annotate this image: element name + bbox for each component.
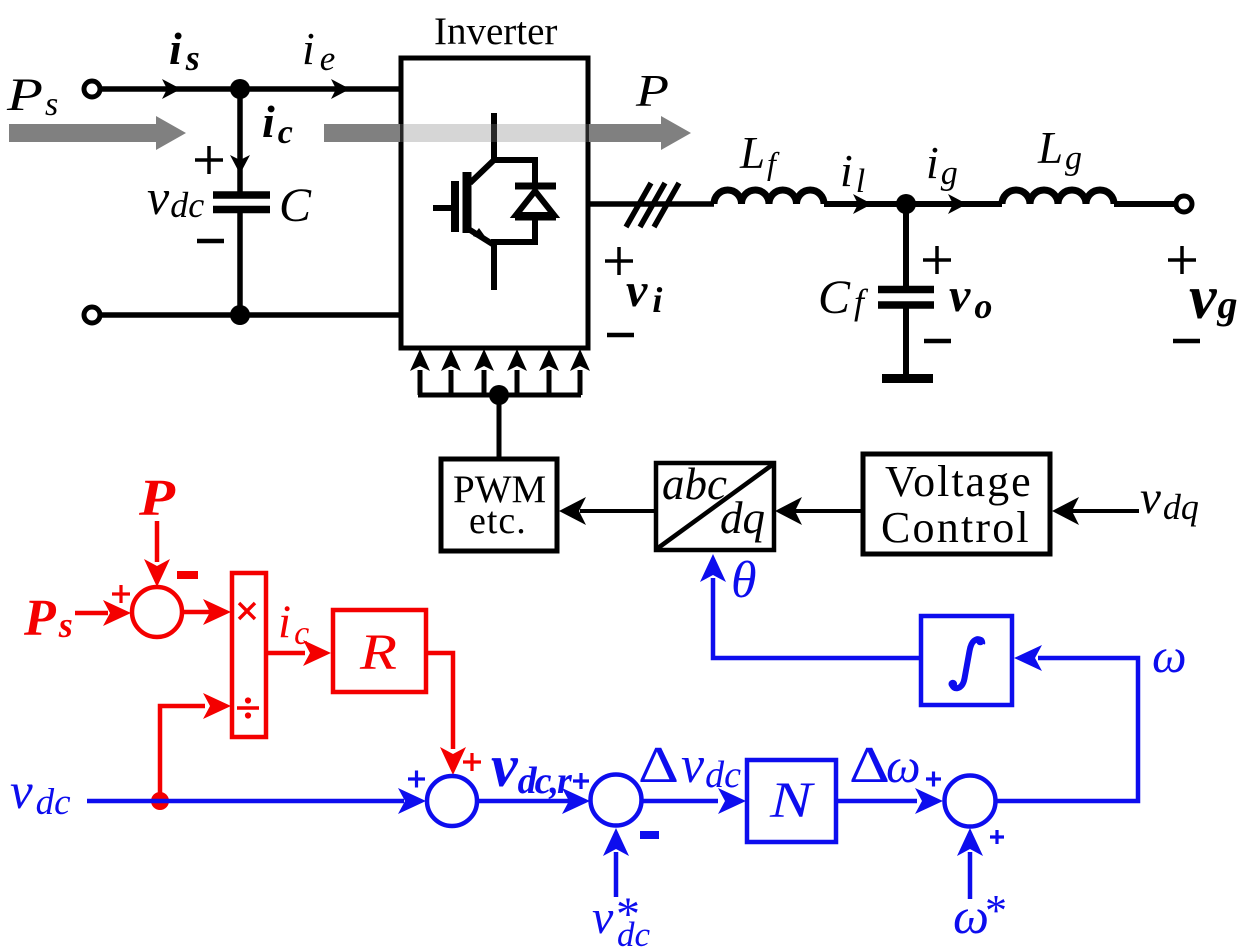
gate drive arrows into inverter [410, 349, 590, 395]
svg-text:*: * [985, 886, 1007, 935]
block N box blue [747, 760, 836, 842]
svg-text:Δ: Δ [638, 737, 679, 794]
arrow R output down into blue summer [440, 747, 466, 775]
svg-text:Inverter: Inverter [434, 10, 557, 53]
wire S2 to S3 blue [477, 799, 571, 804]
diode D1 branch top [532, 160, 538, 186]
terminal T1 top-left [84, 81, 100, 97]
svg-text:il: il [840, 145, 865, 200]
label plus vg [1168, 246, 1196, 274]
diode D1 triangle [516, 191, 554, 215]
transistor Q1 igbt bottom bar [491, 239, 538, 245]
arrow into VC [1052, 497, 1079, 525]
svg-text:ie: ie [302, 23, 335, 78]
svg-text:C: C [279, 179, 312, 232]
wire multiplier to R red [266, 651, 305, 656]
abc/dq diagonal [658, 465, 772, 548]
wire S4 to integrator blue [995, 658, 1138, 801]
svg-text:Ps: Ps [23, 590, 73, 647]
summer S4 blue [945, 776, 996, 827]
wire capacitor branch lower [237, 213, 243, 315]
label plus vo [923, 246, 951, 274]
label divide [237, 706, 259, 710]
svg-text:Control: Control [881, 503, 1031, 552]
arrow into abcdq [775, 497, 802, 525]
svg-text:vdc: vdc [10, 764, 71, 823]
terminal T2 bottom-left [84, 307, 100, 323]
power-flow arrow P grey segment left [324, 124, 400, 142]
node J3 filter junction [896, 194, 916, 214]
wire top dc left [100, 86, 401, 92]
arrow Ps into summer [103, 600, 131, 626]
three-phase slashes [626, 183, 679, 227]
arrow into S4 [915, 788, 943, 814]
svg-text:ω: ω [886, 738, 921, 793]
svg-text:ig: ig [926, 137, 958, 192]
wire vdq input [1072, 509, 1139, 513]
summer S1 red [132, 587, 182, 637]
diode D1 cathode bar [515, 183, 556, 190]
transistor Q1 igbt body bar [463, 172, 472, 233]
svg-text:is: is [169, 23, 200, 78]
arrow wstar up into S4 [957, 828, 983, 856]
terminal T3 grid [1176, 196, 1192, 212]
svg-text:vdc,r: vdc,r [491, 733, 573, 802]
label minus vg [1173, 339, 1200, 344]
label plus blue S3 upper [573, 773, 589, 789]
svg-text:P: P [635, 66, 669, 116]
wire S3 to N blue [642, 799, 718, 804]
label minus vdc [197, 239, 224, 244]
block abc/dq box [656, 463, 774, 550]
transistor Q1 igbt top bar [491, 157, 538, 163]
arrow theta up into abcdq [700, 554, 726, 582]
wire vdc tap to divider red [160, 706, 205, 801]
capacitor C plates [213, 191, 270, 199]
node J4 gate bus junction [489, 385, 509, 405]
block PWM box [441, 459, 557, 551]
svg-text:θ: θ [731, 552, 757, 609]
node J2 dc-bottom junction [230, 305, 250, 325]
inductor Lf [714, 190, 824, 204]
ground bar [882, 374, 933, 383]
arrow into PWM [559, 497, 586, 525]
label plus red at blue summer [463, 753, 481, 771]
block R box red [333, 610, 426, 692]
label plus vdc [195, 146, 223, 174]
label minus blue S3 [640, 831, 659, 839]
wire junction to Lg [906, 201, 1002, 207]
svg-text:ic: ic [278, 596, 309, 652]
label minus vo [924, 339, 951, 344]
arrow into multiplier [203, 599, 231, 625]
arrow P into summer red [144, 559, 170, 587]
inductor Lg [1002, 190, 1114, 204]
label integral [949, 637, 985, 689]
wire VC to abcdq [795, 509, 863, 513]
svg-text:vo: vo [949, 269, 992, 326]
svg-text:Δ: Δ [849, 737, 890, 794]
arrow into N [718, 788, 746, 814]
svg-text:Lg: Lg [1037, 123, 1082, 177]
svg-text:vi: vi [626, 264, 662, 320]
arrow into divider [203, 693, 231, 719]
arrow into R [303, 640, 331, 666]
wire integrator to theta blue [713, 578, 921, 658]
svg-text:vdc: vdc [147, 169, 204, 225]
wire P down red [155, 521, 160, 562]
arrow ic [230, 155, 250, 174]
label plus vi [605, 247, 633, 275]
wire Lg to terminal [1114, 201, 1176, 207]
power-flow arrow P grey translucent over inverter [400, 124, 589, 142]
label minus P red [177, 571, 198, 579]
label plus blue S4 upper [926, 772, 941, 787]
svg-text:Lf: Lf [739, 128, 780, 181]
svg-text:ω: ω [1152, 628, 1187, 683]
transistor Q1 igbt emitter lead [491, 242, 497, 290]
wire wstar into S4 blue [968, 852, 973, 899]
arrow is [162, 79, 181, 99]
wire Cf branch upper [903, 204, 909, 287]
svg-text:ω: ω [953, 889, 989, 945]
svg-text:ic: ic [262, 96, 293, 151]
label minus vi [607, 333, 634, 338]
wire inverter ac output [588, 201, 714, 207]
power-flow arrow P grey segment right [589, 116, 691, 150]
node J1 dc-top junction [230, 79, 250, 99]
svg-text:v: v [592, 891, 614, 944]
svg-text:vdq: vdq [1140, 472, 1199, 527]
svg-text:dc: dc [617, 915, 651, 948]
block integrator box blue [921, 616, 1012, 705]
summer S3 blue [591, 775, 642, 826]
transistor Q1 igbt collector lead [491, 113, 497, 160]
inverter U1 box [401, 58, 588, 348]
svg-text:N: N [769, 773, 816, 829]
wire N to S4 blue [836, 799, 917, 804]
wire Cf branch lower [903, 305, 909, 374]
svg-text:abc: abc [662, 459, 727, 509]
wire vdcref into S3 blue [614, 852, 619, 897]
wire bottom dc [100, 312, 401, 318]
transistor Q1 igbt emitter arrow [473, 228, 489, 242]
block multiplier-divider box red [232, 573, 266, 737]
label times [239, 603, 255, 619]
block Voltage Control box [863, 454, 1050, 554]
diode D1 anode bar [515, 214, 556, 221]
transistor Q1 igbt collector diagonal [470, 160, 494, 183]
wire summer to multiplier red [182, 610, 210, 615]
wire Ps into summer red [75, 611, 108, 616]
gate drive bus [418, 393, 581, 398]
label plus blue S2 [408, 771, 425, 788]
svg-text:etc.: etc. [469, 500, 527, 542]
transistor Q1 igbt gate bar [451, 181, 459, 232]
svg-text:P: P [138, 470, 177, 527]
svg-text:Cf: Cf [818, 271, 869, 324]
arrow ig [948, 194, 967, 214]
power-flow arrow Ps grey [9, 116, 186, 150]
wire abcdq to PWM [580, 509, 656, 513]
arrow vdc into summer S2 [398, 788, 426, 814]
svg-text:R: R [359, 625, 397, 681]
transistor Q1 igbt emitter diagonal [470, 230, 494, 245]
diode D1 branch bottom [532, 217, 538, 242]
summer S2 blue [427, 776, 477, 826]
arrow vdcref up into S3 [603, 828, 629, 856]
arrow into integrator [1014, 645, 1042, 671]
svg-text:dq: dq [720, 493, 765, 543]
arrow into S3 [562, 788, 590, 814]
wire Lf to junction [824, 201, 906, 207]
wire R to summer red [426, 653, 453, 749]
arrow il [853, 194, 872, 214]
svg-text:Ps: Ps [6, 69, 58, 123]
svg-text:Voltage: Voltage [885, 457, 1033, 506]
svg-text:vg: vg [1189, 264, 1238, 332]
arrow ie [331, 79, 350, 99]
svg-text:vdc: vdc [681, 737, 741, 796]
wire bus to PWM [497, 395, 502, 459]
capacitor Cf plates [878, 286, 934, 294]
label plus blue S4 lower [990, 830, 1004, 844]
label plus Ps red [112, 585, 130, 603]
wire vdc blue [87, 799, 404, 804]
transistor Q1 igbt gate lead [433, 205, 451, 211]
wire capacitor branch upper [237, 89, 243, 193]
node J5 red tap on vdc line [151, 792, 169, 810]
